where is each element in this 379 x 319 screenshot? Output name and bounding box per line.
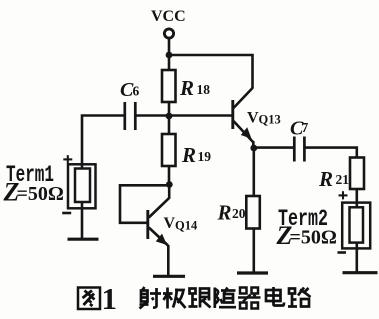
wire C6 right plate to base node xyxy=(137,114,170,117)
svg-text:V: V xyxy=(164,215,176,232)
arrow Q14 emitter xyxy=(156,234,167,245)
svg-text:Q13: Q13 xyxy=(259,113,281,127)
wire junction to R18 xyxy=(168,55,171,71)
svg-text:V: V xyxy=(247,110,259,127)
caption figure number glyph TU (figure) xyxy=(78,288,100,310)
caption glyph LU (road) xyxy=(288,288,311,307)
node junction at VCC rail xyxy=(166,52,173,59)
wire R18 to base node xyxy=(168,102,171,116)
label VQ14 xyxy=(164,215,198,233)
node base junction xyxy=(166,113,173,120)
ground Term2 xyxy=(343,271,378,274)
transistor Q14 emitter xyxy=(149,228,168,246)
wire C7 to R21 xyxy=(306,148,357,158)
wire R21 to Term2 xyxy=(355,189,358,203)
net VCC label xyxy=(151,8,186,25)
label Z=50ohm Term2 xyxy=(276,221,337,250)
transistor Q14 collector xyxy=(149,185,169,218)
terminal Term2 outer box xyxy=(342,203,370,249)
terminal Term1 outer box xyxy=(68,164,96,208)
svg-text:R: R xyxy=(179,76,194,100)
wire output node to C7 xyxy=(254,146,294,149)
node Q14 collector junction xyxy=(166,181,173,188)
wire output node to R20 xyxy=(253,148,256,197)
label R20 xyxy=(217,201,246,225)
wire R19 to Q14 node xyxy=(168,166,171,185)
minus sign Term2 xyxy=(338,251,347,254)
caption glyph SHE (shoot) xyxy=(140,287,162,309)
resistor R18 xyxy=(162,70,176,102)
plus sign Term2 xyxy=(339,191,348,199)
ground Term1 xyxy=(68,238,99,241)
wire Term1 vertical through to ground xyxy=(81,165,84,239)
transistor Q13 emitter xyxy=(234,121,254,142)
svg-text:R: R xyxy=(217,201,232,225)
wire base node to Q13 base xyxy=(169,114,232,117)
wire top rail to Q13 collector xyxy=(169,55,253,89)
minus sign Term1 xyxy=(62,212,71,215)
terminal Term2 inner box xyxy=(350,207,364,242)
plus sign Term1 xyxy=(63,155,72,163)
wire Q14 emitter to ground xyxy=(167,245,170,276)
svg-text:R: R xyxy=(318,167,333,191)
svg-text:19: 19 xyxy=(198,149,212,164)
wire Term2 vertical through to ground xyxy=(355,203,358,272)
label C6 xyxy=(120,79,140,101)
wire Q13 emitter to output node xyxy=(252,141,255,149)
resistor R19 xyxy=(162,134,176,166)
label R19 xyxy=(181,143,211,167)
svg-text:=50Ω: =50Ω xyxy=(17,183,64,205)
label Z=50ohm Term1 xyxy=(3,178,64,207)
capacitor C6 xyxy=(125,102,136,130)
caption glyph QI (device) xyxy=(238,288,261,309)
label C7 xyxy=(290,118,309,140)
svg-text:VCC: VCC xyxy=(151,8,186,25)
label R18 xyxy=(179,76,210,100)
label Term1 xyxy=(6,162,54,188)
wire C6 left to Term1 corner xyxy=(82,116,124,166)
wire base node to R19 xyxy=(168,116,171,135)
terminal Term1 inner box xyxy=(75,169,90,203)
caption glyph GEN (follow/heel) xyxy=(189,289,211,308)
svg-text:7: 7 xyxy=(302,120,309,135)
svg-text:21: 21 xyxy=(336,172,350,187)
transistor Q14 base bar xyxy=(146,210,149,239)
caption glyph JI (pole) xyxy=(163,288,186,309)
label VQ13 xyxy=(247,110,281,127)
transistor Q13 collector xyxy=(234,88,253,108)
resistor R20 xyxy=(246,196,259,229)
wire R20 to ground xyxy=(253,229,256,273)
caption glyph DIAN (electric) xyxy=(266,287,284,306)
label Term2 xyxy=(278,206,328,232)
capacitor C7 xyxy=(294,137,304,162)
arrow Q13 emitter xyxy=(241,127,252,139)
svg-text:20: 20 xyxy=(232,206,246,221)
svg-text:18: 18 xyxy=(197,82,211,97)
resistor R21 xyxy=(350,158,364,190)
wire VCC terminal to junction xyxy=(168,38,171,56)
svg-text:R: R xyxy=(181,143,196,167)
wire feedback loop Q14 base to collector xyxy=(120,185,169,223)
node output junction xyxy=(250,145,257,152)
ground R20 xyxy=(237,271,268,274)
VCC terminal circle xyxy=(164,29,173,38)
svg-text:=50Ω: =50Ω xyxy=(290,227,337,249)
svg-text:1: 1 xyxy=(102,281,118,316)
label R21 xyxy=(318,167,349,191)
caption glyph SUI (follow) xyxy=(215,288,236,309)
transistor Q13 base bar xyxy=(231,100,234,129)
ground Q14 xyxy=(153,275,185,278)
svg-text:6: 6 xyxy=(133,84,140,99)
svg-text:Q14: Q14 xyxy=(175,219,198,233)
